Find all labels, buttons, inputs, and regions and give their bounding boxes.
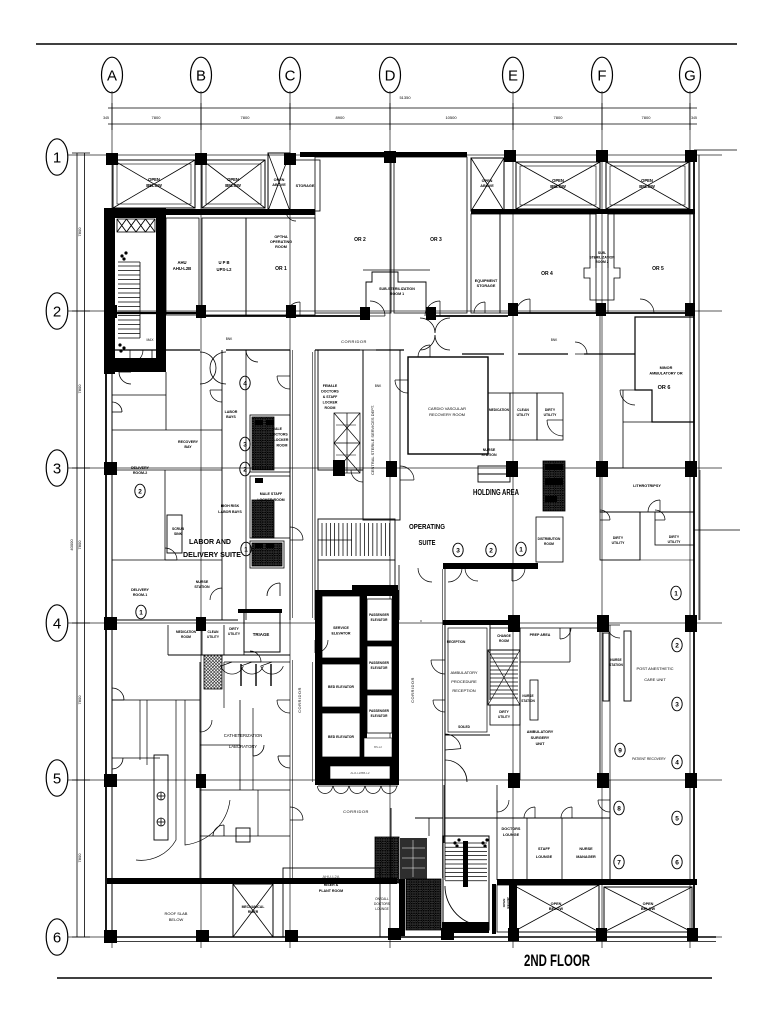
service elevator partial walls bbox=[317, 560, 319, 620]
svg-text:LABOR AND: LABOR AND bbox=[189, 537, 232, 546]
nurse station ambulatory bbox=[530, 680, 538, 720]
room OR 3 bbox=[394, 157, 467, 313]
ambulatory outer right wall bbox=[599, 625, 601, 780]
svg-text:PREP AREA: PREP AREA bbox=[530, 633, 551, 637]
toilet fixtures dots bbox=[255, 420, 274, 548]
vertical grid lines bbox=[112, 91, 690, 948]
svg-text:1: 1 bbox=[139, 609, 143, 616]
svg-text:ROOM: ROOM bbox=[499, 639, 509, 643]
svg-text:BELOW: BELOW bbox=[550, 184, 566, 189]
row4 right columns bbox=[508, 615, 520, 632]
svg-text:LOCKER: LOCKER bbox=[274, 438, 289, 442]
svg-text:7800: 7800 bbox=[77, 227, 82, 237]
black strip left of stair bbox=[399, 879, 405, 936]
holding area doors bbox=[547, 420, 563, 436]
grid bubbles A-G bbox=[102, 57, 123, 93]
bottom center stair bbox=[443, 836, 489, 930]
svg-text:ELEVATOR: ELEVATOR bbox=[371, 666, 389, 670]
svg-text:UTILITY: UTILITY bbox=[498, 715, 511, 719]
svg-text:OPEN: OPEN bbox=[551, 902, 562, 906]
svg-text:BNK: BNK bbox=[375, 384, 382, 388]
svg-text:CLEAN: CLEAN bbox=[208, 630, 220, 634]
male staff locker room bbox=[250, 476, 290, 538]
nurse station strips pacu bbox=[603, 633, 609, 701]
svg-text:4: 4 bbox=[243, 380, 247, 387]
svg-text:PATIENT RECOVERY: PATIENT RECOVERY bbox=[632, 757, 666, 761]
stair ST-1 top braid bbox=[117, 219, 155, 232]
room OR 2 bbox=[315, 157, 391, 313]
ambulatory stair hatch bbox=[488, 650, 520, 705]
svg-text:DIRTY: DIRTY bbox=[499, 710, 509, 714]
elevator lobby slot bbox=[330, 766, 390, 779]
row5 corridor door bbox=[433, 700, 445, 712]
cath lab inner door arcs bbox=[278, 756, 290, 768]
svg-text:BELOW: BELOW bbox=[146, 183, 162, 188]
svg-text:NURSE: NURSE bbox=[522, 694, 533, 698]
svg-text:UTILITY: UTILITY bbox=[207, 635, 220, 639]
border frame top line bbox=[36, 43, 737, 45]
svg-text:40000: 40000 bbox=[69, 539, 74, 551]
svg-text:2: 2 bbox=[138, 488, 142, 495]
right exterior wall bbox=[693, 155, 695, 940]
svg-text:345: 345 bbox=[691, 116, 697, 120]
svg-text:PASSENGER: PASSENGER bbox=[369, 613, 389, 617]
svg-text:OPEN: OPEN bbox=[641, 178, 653, 183]
svg-text:CLEAN: CLEAN bbox=[517, 408, 529, 412]
or suite circles 3 2 1 bbox=[453, 543, 463, 557]
open above shaft at C bbox=[268, 153, 290, 211]
reception inner wall bbox=[448, 628, 487, 732]
corridor right doors bbox=[431, 660, 445, 674]
svg-text:5: 5 bbox=[53, 771, 61, 788]
svg-text:OR 2: OR 2 bbox=[354, 237, 366, 243]
svg-text:DIRTY: DIRTY bbox=[545, 408, 556, 412]
svg-text:4: 4 bbox=[675, 759, 679, 766]
svg-text:AHU: AHU bbox=[177, 260, 186, 265]
holding lower doors bbox=[465, 568, 478, 581]
row5 right columns bbox=[508, 773, 520, 788]
svg-text:ROOM: ROOM bbox=[181, 635, 191, 639]
svg-text:MEDICATION: MEDICATION bbox=[489, 408, 510, 412]
svg-text:10500: 10500 bbox=[445, 115, 457, 120]
svg-text:NURSE: NURSE bbox=[579, 847, 593, 851]
svg-text:OPERATING: OPERATING bbox=[409, 524, 445, 531]
svg-text:UTILITY: UTILITY bbox=[228, 632, 241, 636]
svg-text:SURGERY: SURGERY bbox=[531, 736, 550, 740]
medication room bbox=[488, 393, 510, 440]
row6 columns bbox=[196, 930, 209, 942]
stair plants bottom bbox=[453, 838, 488, 847]
svg-text:5: 5 bbox=[675, 815, 679, 822]
svg-text:ROOM: ROOM bbox=[544, 542, 554, 546]
left corridor double door bbox=[200, 352, 216, 384]
svg-text:3: 3 bbox=[243, 441, 247, 448]
svg-text:DOCTORS: DOCTORS bbox=[374, 902, 390, 906]
thick wall below left xboxes bbox=[104, 209, 315, 215]
heavy wall below circles bbox=[443, 563, 538, 569]
bed elevator cab 1 bbox=[322, 664, 360, 707]
svg-text:ELEVATOR: ELEVATOR bbox=[371, 618, 389, 622]
svg-text:345: 345 bbox=[103, 116, 109, 120]
svg-text:MALE STAFF: MALE STAFF bbox=[260, 492, 283, 496]
corridor arcs y350 bbox=[152, 350, 164, 362]
elevator core outer black walls bbox=[315, 590, 399, 785]
labor suite doors bbox=[130, 350, 143, 363]
svg-text:NURSE: NURSE bbox=[610, 658, 621, 662]
svg-text:UTILITY: UTILITY bbox=[668, 540, 682, 544]
svg-text:ROOF SLAB: ROOF SLAB bbox=[165, 911, 188, 916]
row4 rooms walls bbox=[112, 619, 238, 621]
distribution room bbox=[536, 517, 563, 562]
svg-text:OPERATING: OPERATING bbox=[270, 240, 292, 244]
dirty utility rooms right bbox=[600, 512, 640, 560]
bottom exterior double line bbox=[104, 936, 716, 938]
stair ST-1 treads bbox=[118, 266, 140, 334]
svg-text:2: 2 bbox=[675, 642, 679, 649]
svg-text:DOCTORS: DOCTORS bbox=[321, 390, 339, 394]
svg-text:PROCEDURE: PROCEDURE bbox=[451, 679, 477, 684]
row3 columns bbox=[333, 460, 345, 476]
svg-text:ROOM-2: ROOM-2 bbox=[133, 471, 147, 475]
svg-text:DIRTY: DIRTY bbox=[229, 627, 239, 631]
svg-text:LOUNGE: LOUNGE bbox=[503, 833, 520, 837]
storage room top bbox=[290, 160, 320, 211]
or suite inner doors bbox=[400, 466, 414, 480]
svg-text:7800: 7800 bbox=[241, 115, 251, 120]
stair side room wall bbox=[428, 818, 430, 836]
svg-text:CARDIO VASCULAR: CARDIO VASCULAR bbox=[428, 406, 466, 411]
cardio vascular recovery room bbox=[408, 357, 488, 454]
svg-text:ROOM: ROOM bbox=[277, 444, 288, 448]
top dimension lines bbox=[103, 95, 697, 130]
corridor doors left column bbox=[277, 376, 290, 389]
svg-text:7800: 7800 bbox=[554, 115, 564, 120]
sterilizer equipment dark block bbox=[543, 461, 565, 511]
bottom right columns bbox=[508, 928, 519, 941]
room OR 5 bbox=[608, 214, 694, 313]
svg-text:RISER: RISER bbox=[248, 910, 259, 914]
svg-text:RECOVERY ROOM: RECOVERY ROOM bbox=[429, 412, 465, 417]
svg-text:6: 6 bbox=[53, 930, 61, 947]
svg-text:OR 3: OR 3 bbox=[430, 237, 442, 243]
svg-text:STORAGE: STORAGE bbox=[296, 184, 315, 188]
top row columns bbox=[106, 153, 118, 165]
patient circle 1 right bbox=[671, 586, 681, 600]
mechanical riser xbox bbox=[233, 884, 273, 937]
svg-text:BELOW: BELOW bbox=[169, 917, 184, 922]
stair ST-1 plants bbox=[118, 251, 127, 352]
svg-text:A: A bbox=[107, 68, 117, 85]
ahu plant room bbox=[283, 868, 380, 937]
svg-text:ROOM: ROOM bbox=[325, 406, 336, 410]
svg-text:CARE UNIT: CARE UNIT bbox=[644, 677, 666, 682]
left exterior wall bbox=[105, 372, 107, 937]
locker hatch block A bbox=[375, 837, 399, 883]
lounge doors bbox=[497, 800, 509, 812]
svg-text:SERVICE: SERVICE bbox=[333, 626, 349, 630]
svg-text:OPEN: OPEN bbox=[643, 902, 654, 906]
corridor right of core bbox=[398, 565, 400, 620]
svg-text:7: 7 bbox=[617, 859, 621, 866]
svg-text:9: 9 bbox=[618, 747, 622, 754]
svg-text:BED ELEVATOR: BED ELEVATOR bbox=[328, 685, 355, 689]
service elevator cab bbox=[322, 596, 360, 658]
svg-text:AMBULATORY: AMBULATORY bbox=[450, 670, 477, 675]
svg-text:BNK: BNK bbox=[551, 338, 558, 342]
svg-text:7800: 7800 bbox=[77, 853, 82, 863]
room OR 4 bbox=[500, 214, 596, 313]
wall above OR6 bbox=[518, 353, 568, 355]
nurse station counter bbox=[478, 466, 510, 474]
room OR 1 bbox=[246, 218, 315, 315]
open below xbox bottom 1 bbox=[513, 885, 599, 932]
sub-sterilization room 2 bbox=[584, 214, 620, 300]
row5 door posts left bbox=[196, 774, 206, 788]
svg-text:NURSE: NURSE bbox=[196, 580, 209, 584]
svg-text:STATION: STATION bbox=[194, 585, 210, 589]
svg-text:CHANGE: CHANGE bbox=[497, 634, 511, 638]
svg-text:OPEN: OPEN bbox=[274, 178, 285, 182]
corridor below row2 walls bbox=[112, 349, 200, 351]
male staff toilet hatch bbox=[252, 500, 274, 538]
border frame bottom line bbox=[57, 977, 712, 979]
svg-text:BS-L2: BS-L2 bbox=[374, 745, 382, 749]
svg-text:OR 4: OR 4 bbox=[541, 271, 553, 277]
labor suite outer walls bbox=[221, 350, 223, 620]
svg-text:DIRTY: DIRTY bbox=[669, 535, 680, 539]
svg-text:MECHANICAL: MECHANICAL bbox=[242, 905, 265, 909]
svg-text:LOUNGE: LOUNGE bbox=[375, 907, 388, 911]
or1 door bbox=[286, 302, 300, 316]
svg-text:BELOW: BELOW bbox=[506, 897, 510, 908]
horizontal grid lines bbox=[68, 155, 722, 937]
svg-text:SUB-: SUB- bbox=[598, 251, 606, 255]
svg-text:OPEN: OPEN bbox=[227, 177, 239, 182]
svg-text:UNIT: UNIT bbox=[536, 742, 546, 746]
dirty utility ambulatory bbox=[490, 705, 520, 725]
svg-text:LOCKER: LOCKER bbox=[323, 401, 338, 405]
thick top wall C-D bbox=[300, 152, 467, 157]
prep area door bbox=[560, 628, 571, 639]
pacu walls bbox=[609, 625, 611, 880]
svg-text:TRIAGE: TRIAGE bbox=[253, 632, 270, 637]
row2 wall segments with door posts bbox=[112, 313, 687, 316]
lounge stair walls bbox=[443, 785, 445, 843]
svg-text:ROOM-1: ROOM-1 bbox=[133, 593, 147, 597]
svg-text:UTILITY: UTILITY bbox=[612, 541, 626, 545]
wall below OR6 bbox=[623, 421, 694, 423]
svg-text:UTILITY: UTILITY bbox=[517, 413, 531, 417]
svg-text:7800: 7800 bbox=[77, 384, 82, 394]
cath lab bays bbox=[224, 661, 290, 663]
black band below stair bbox=[352, 585, 398, 596]
right mid vertical walls bbox=[639, 512, 641, 560]
svg-text:OR 6: OR 6 bbox=[658, 385, 671, 391]
svg-text:ABOVE: ABOVE bbox=[272, 183, 286, 187]
triage room walls bbox=[238, 609, 282, 613]
svg-text:FEMALE: FEMALE bbox=[323, 384, 338, 388]
right edge stub lines bbox=[694, 149, 737, 151]
svg-text:MEDICATION: MEDICATION bbox=[176, 630, 197, 634]
svg-text:2: 2 bbox=[489, 547, 493, 554]
locker hatch block C bbox=[406, 879, 441, 930]
svg-text:HOLDING AREA: HOLDING AREA bbox=[473, 488, 519, 497]
svg-text:OPEN: OPEN bbox=[482, 179, 493, 183]
svg-text:OR 1: OR 1 bbox=[275, 266, 287, 272]
lithotripsy door bbox=[648, 500, 660, 512]
or2 door bbox=[370, 301, 385, 316]
cath table pill bbox=[154, 755, 168, 840]
svg-text:8: 8 bbox=[617, 805, 621, 812]
lithotripsy room bbox=[600, 468, 694, 512]
svg-text:STERILIZATION: STERILIZATION bbox=[589, 256, 615, 260]
equipment storage room bbox=[471, 214, 500, 313]
svg-text:DIRTY: DIRTY bbox=[613, 536, 624, 540]
grid bubbles 1-6 bbox=[46, 139, 68, 175]
svg-text:BELOW: BELOW bbox=[639, 184, 655, 189]
svg-text:SOILED: SOILED bbox=[458, 725, 471, 729]
svg-text:MAX: MAX bbox=[147, 338, 155, 342]
scalloped doors below core bbox=[318, 786, 397, 794]
svg-text:BELOW: BELOW bbox=[225, 183, 241, 188]
male doctors toilet hatch bbox=[252, 417, 274, 470]
svg-text:LOUNGE: LOUNGE bbox=[536, 855, 553, 859]
svg-text:RECEPTION: RECEPTION bbox=[447, 640, 466, 644]
svg-text:MANAGER: MANAGER bbox=[576, 855, 596, 859]
room AHU-L2B bbox=[166, 218, 199, 315]
corridor double door top bbox=[420, 318, 450, 333]
bottom left thick wall bbox=[107, 878, 397, 884]
svg-text:CENTRAL STERILE SERVICES DEPT.: CENTRAL STERILE SERVICES DEPT. bbox=[370, 405, 375, 475]
svg-text:CORRIDOR: CORRIDOR bbox=[341, 339, 367, 344]
thick wall below right xboxes bbox=[471, 209, 695, 214]
svg-text:UPS-L2: UPS-L2 bbox=[217, 267, 233, 272]
svg-text:3: 3 bbox=[675, 701, 679, 708]
svg-text:AHJ-L2/BB-L2: AHJ-L2/BB-L2 bbox=[350, 771, 370, 775]
pacu door bbox=[607, 625, 620, 638]
female locker hatch equipment bbox=[334, 413, 360, 473]
svg-text:ON/CALL: ON/CALL bbox=[375, 897, 389, 901]
dirty utility doors right bbox=[600, 510, 610, 520]
female doctors locker room bbox=[318, 350, 363, 470]
sub-sterilization room 1 bbox=[366, 272, 426, 313]
bed elevator cab 2 bbox=[322, 713, 360, 757]
recovery circles lower bbox=[614, 801, 624, 815]
svg-text:LITHROTRIPSY: LITHROTRIPSY bbox=[633, 484, 661, 488]
open below xbox E-F bbox=[516, 162, 600, 209]
svg-text:PASSENGER: PASSENGER bbox=[369, 709, 389, 713]
open below strip side walls bbox=[492, 884, 496, 934]
svg-text:OR 5: OR 5 bbox=[652, 266, 664, 272]
svg-text:1: 1 bbox=[674, 590, 678, 597]
pacu circles bbox=[672, 638, 682, 652]
passenger elevator cab 1 bbox=[367, 599, 392, 641]
equipment storage door bbox=[474, 302, 485, 313]
svg-text:OPEN: OPEN bbox=[552, 178, 564, 183]
svg-text:RECEPTION: RECEPTION bbox=[452, 688, 475, 693]
or4 door bbox=[516, 299, 530, 313]
left wall columns bbox=[104, 305, 117, 318]
svg-text:2: 2 bbox=[243, 466, 247, 473]
svg-text:G: G bbox=[684, 68, 696, 85]
open below strip small bbox=[497, 885, 513, 932]
svg-text:LABOR: LABOR bbox=[225, 410, 238, 414]
svg-text:MINOR: MINOR bbox=[660, 366, 673, 370]
ats room small bbox=[364, 738, 392, 757]
svg-text:U P B: U P B bbox=[218, 260, 229, 265]
svg-text:AHU-L2B: AHU-L2B bbox=[173, 266, 191, 271]
svg-text:ABOVE: ABOVE bbox=[480, 184, 494, 188]
svg-text:2: 2 bbox=[53, 304, 61, 321]
triage door bbox=[250, 651, 261, 662]
svg-text:7800: 7800 bbox=[77, 540, 82, 550]
bottom right heavy wall bbox=[497, 879, 697, 885]
svg-text:POST ANESTHETIC: POST ANESTHETIC bbox=[636, 666, 673, 671]
svg-text:BELOW: BELOW bbox=[641, 907, 656, 911]
svg-text:3: 3 bbox=[456, 547, 460, 554]
svg-text:CATHETERIZATION: CATHETERIZATION bbox=[224, 733, 262, 738]
svg-text:D: D bbox=[385, 68, 396, 85]
svg-text:SINK: SINK bbox=[174, 532, 183, 536]
svg-text:RISER &: RISER & bbox=[324, 883, 339, 887]
svg-text:STATION: STATION bbox=[609, 663, 623, 667]
cath lab outer walls bbox=[199, 662, 201, 880]
storage door top bbox=[286, 211, 296, 221]
left edge room partitions bbox=[112, 394, 166, 396]
svg-text:1: 1 bbox=[53, 150, 61, 167]
svg-text:3: 3 bbox=[53, 461, 61, 478]
open below xbox A-B bbox=[113, 160, 195, 208]
passenger elevator cab 2 bbox=[367, 646, 392, 690]
or6 door bbox=[620, 390, 635, 405]
cath lab doors bbox=[277, 700, 290, 713]
svg-text:1: 1 bbox=[244, 546, 248, 553]
svg-text:EQUIPMENT: EQUIPMENT bbox=[475, 279, 498, 283]
bay circles 4 3 2 1 bbox=[240, 376, 250, 390]
svg-text:ELEVATOR: ELEVATOR bbox=[371, 714, 389, 718]
stair below female locker bbox=[318, 519, 395, 560]
svg-text:NURSE: NURSE bbox=[483, 448, 496, 452]
svg-text:DELIVERY SUITE: DELIVERY SUITE bbox=[183, 550, 241, 559]
svg-text:RECOVERY: RECOVERY bbox=[178, 440, 199, 444]
svg-text:SCRUB: SCRUB bbox=[172, 527, 185, 531]
svg-text:AMBULATORY OR: AMBULATORY OR bbox=[649, 372, 682, 376]
open below xbox B-C bbox=[202, 160, 265, 208]
svg-text:B: B bbox=[196, 68, 206, 85]
minor ambulatory OR6 room bbox=[635, 317, 694, 422]
svg-text:E: E bbox=[508, 68, 518, 85]
svg-text:DISTRIBUTION: DISTRIBUTION bbox=[538, 537, 561, 541]
svg-text:OPEN: OPEN bbox=[148, 177, 160, 182]
lounge walls bbox=[445, 817, 610, 819]
svg-text:2ND FLOOR: 2ND FLOOR bbox=[524, 951, 590, 970]
svg-text:ELEVATOR: ELEVATOR bbox=[332, 632, 351, 636]
svg-text:C: C bbox=[285, 68, 296, 85]
svg-text:STATION: STATION bbox=[481, 453, 497, 457]
stair shaft ST-1 walls bbox=[104, 208, 166, 374]
open below xbox F-G bbox=[606, 162, 689, 209]
svg-text:BED ELEVATOR: BED ELEVATOR bbox=[328, 735, 355, 739]
passenger elevator cab 3 bbox=[367, 695, 392, 733]
or3 door bbox=[425, 301, 440, 316]
svg-text:7800: 7800 bbox=[77, 695, 82, 705]
svg-text:SUB-STERILIZATION: SUB-STERILIZATION bbox=[379, 287, 415, 291]
svg-text:1: 1 bbox=[519, 546, 523, 553]
svg-text:PLANT ROOM: PLANT ROOM bbox=[319, 889, 343, 893]
toilet block 3 bbox=[250, 541, 284, 568]
svg-text:CORRIDOR: CORRIDOR bbox=[343, 809, 369, 814]
svg-text:ROOM 1: ROOM 1 bbox=[390, 292, 404, 296]
